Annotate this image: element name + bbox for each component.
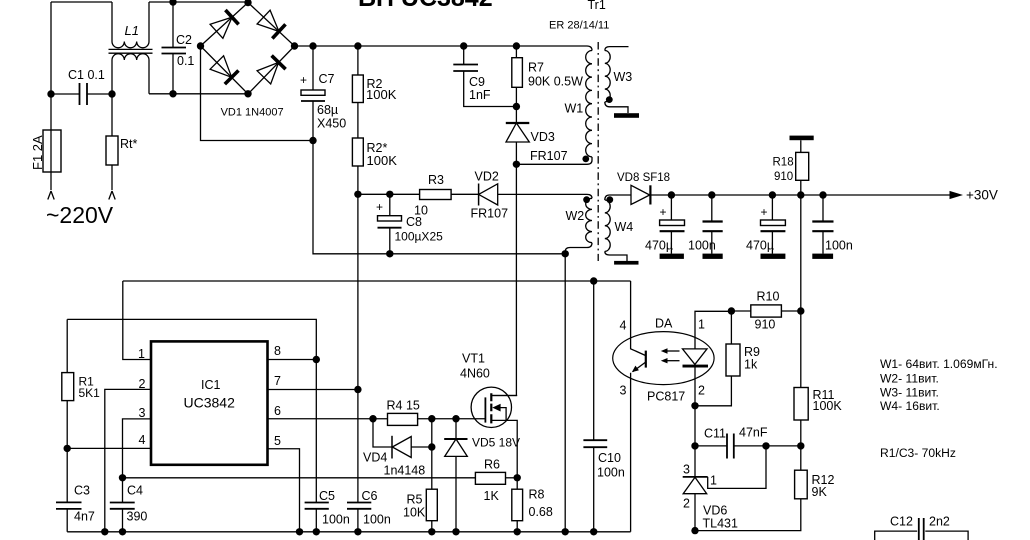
terminal chevron under Rt* bbox=[109, 191, 115, 200]
opto pin 2 riser bbox=[694, 368, 696, 446]
resistor R5 bbox=[426, 489, 437, 521]
opto LED triangle bbox=[683, 349, 708, 365]
winding W4 bbox=[605, 200, 610, 251]
resistor R9 bbox=[726, 344, 740, 376]
svg-text:7: 7 bbox=[274, 374, 281, 388]
ground W3 bbox=[614, 113, 639, 118]
svg-text:~220V: ~220V bbox=[46, 202, 114, 228]
capacitor C-out1 470u electrolytic bbox=[670, 195, 672, 254]
pin 1 wire bbox=[123, 281, 151, 360]
resistor R11 bbox=[794, 388, 808, 421]
capacitor C4 bbox=[122, 478, 124, 532]
svg-text:+: + bbox=[761, 205, 768, 219]
svg-text:C8: C8 bbox=[406, 215, 422, 229]
bridge diode lower-left bbox=[210, 56, 232, 78]
capacitor C-out3 470u electrolytic bbox=[771, 195, 773, 254]
svg-text:R3: R3 bbox=[428, 173, 444, 187]
transformer Tr1 core (dash-dot) bbox=[597, 42, 599, 261]
ground bar C-out1 bbox=[660, 254, 684, 259]
wire: drain vertical from VD3 node down to VT1 drain bbox=[491, 164, 516, 395]
resistor R1 bbox=[62, 373, 74, 401]
light arrow 1 bbox=[666, 350, 680, 352]
opto pin 3 riser to primary ground bbox=[630, 373, 632, 532]
svg-text:VD6: VD6 bbox=[703, 504, 727, 518]
phototransistor base bar bbox=[645, 351, 647, 368]
transistor VT1 circle bbox=[471, 387, 511, 427]
capacitor C9 bbox=[464, 46, 517, 107]
svg-text:X450: X450 bbox=[317, 117, 346, 131]
svg-text:VD5 18V: VD5 18V bbox=[472, 436, 520, 450]
svg-text:R7: R7 bbox=[528, 61, 544, 75]
wire: gate drive line bbox=[373, 418, 485, 420]
bridge diode upper-right bbox=[257, 10, 279, 31]
svg-text:2: 2 bbox=[139, 377, 146, 391]
capacitor C10 bbox=[593, 281, 595, 532]
wire: top mains line right segment bbox=[149, 1, 248, 3]
svg-text:W4: W4 bbox=[615, 220, 634, 234]
wire: divider vertical R10 right to R11 bbox=[800, 311, 802, 388]
arrow +30V bbox=[950, 191, 964, 199]
wire: bridge minus path down and right to C7 bottom bbox=[201, 46, 314, 141]
winding W1 bbox=[586, 51, 592, 157]
svg-text:100n: 100n bbox=[322, 513, 350, 527]
svg-text:100n: 100n bbox=[597, 466, 625, 480]
svg-text:4: 4 bbox=[620, 319, 627, 333]
pin 4 wire bbox=[67, 447, 151, 449]
wire: W4 bottom lead to ground bbox=[605, 251, 627, 261]
pin 2 wire bbox=[105, 389, 151, 531]
wire: R3 feed line bbox=[358, 193, 479, 195]
diode VD4 bbox=[373, 419, 392, 447]
wire: W3 bottom lead to ground bbox=[605, 102, 628, 113]
svg-text:C3: C3 bbox=[74, 484, 90, 498]
pin 5 wire bbox=[268, 449, 300, 532]
wire: bottom mains line to bridge bbox=[149, 93, 248, 95]
opto pin 4 riser and phototransistor collector bbox=[631, 281, 646, 356]
svg-text:1k: 1k bbox=[744, 358, 758, 372]
svg-text:910: 910 bbox=[755, 318, 776, 332]
svg-text:VD8 SF18: VD8 SF18 bbox=[617, 172, 670, 184]
resistor R3 bbox=[420, 190, 452, 200]
fuse F1 bbox=[43, 130, 61, 172]
svg-text:Rt*: Rt* bbox=[120, 137, 138, 151]
capacitor C7 electrolytic bbox=[312, 46, 314, 141]
svg-text:0.1: 0.1 bbox=[177, 54, 194, 68]
svg-text:Tr1: Tr1 bbox=[588, 0, 606, 12]
svg-text:L1: L1 bbox=[125, 23, 139, 38]
svg-text:C9: C9 bbox=[469, 75, 485, 89]
wire: W3 top stub bbox=[605, 47, 629, 51]
op-amp IC1 UC3842 box bbox=[151, 341, 268, 464]
svg-text:470µ: 470µ bbox=[746, 239, 774, 253]
svg-text:R6: R6 bbox=[484, 458, 500, 472]
wire: W2 bottom lead to primary minus bbox=[565, 243, 592, 254]
svg-text:9K: 9K bbox=[812, 485, 828, 499]
svg-text:VD4: VD4 bbox=[363, 451, 387, 465]
svg-text:100n: 100n bbox=[825, 239, 853, 253]
svg-text:C2: C2 bbox=[176, 33, 192, 47]
capacitor C6 bbox=[347, 503, 371, 509]
svg-text:R8: R8 bbox=[529, 488, 545, 502]
svg-text:C1 0.1: C1 0.1 bbox=[68, 68, 105, 82]
bridge diode upper-left bbox=[210, 17, 232, 38]
svg-text:DA: DA bbox=[655, 317, 673, 331]
polarity dot W1 bbox=[582, 156, 589, 163]
VT1 source tap bbox=[491, 420, 517, 477]
phototransistor emitter with arrow bbox=[633, 362, 646, 372]
svg-text:100K: 100K bbox=[813, 399, 843, 413]
capacitor C-out4 100n bbox=[822, 195, 824, 254]
svg-text:C6: C6 bbox=[362, 489, 378, 503]
wire: DC+ rail from bridge to transformer W1 bbox=[295, 46, 593, 51]
svg-text:10K: 10K bbox=[403, 506, 426, 520]
resistor R18 bbox=[796, 152, 809, 180]
svg-text:R10: R10 bbox=[757, 290, 780, 304]
svg-text:100K: 100K bbox=[367, 153, 398, 168]
svg-text:3: 3 bbox=[139, 406, 146, 420]
svg-text:100K: 100K bbox=[366, 87, 397, 102]
wire: top mains line left segment bbox=[51, 1, 112, 3]
svg-text:5K1: 5K1 bbox=[79, 386, 101, 400]
svg-text:1n4148: 1n4148 bbox=[384, 464, 426, 478]
svg-text:47nF: 47nF bbox=[739, 426, 768, 440]
svg-text:+: + bbox=[300, 73, 307, 87]
svg-text:W3: W3 bbox=[614, 70, 633, 84]
resistor R7 bbox=[512, 58, 523, 88]
wire: comp line pin1 to opto pin4 bbox=[123, 280, 631, 282]
svg-text:90K 0.5W: 90K 0.5W bbox=[528, 75, 583, 89]
resistor R6 bbox=[475, 472, 505, 484]
capacitor C-out2 100n bbox=[711, 195, 713, 254]
svg-text:TL431: TL431 bbox=[703, 517, 738, 531]
svg-text:6: 6 bbox=[274, 404, 281, 418]
opto pin 1 wire to R10/R9 node bbox=[695, 311, 731, 349]
thermistor Rt* bbox=[106, 136, 118, 165]
svg-text:R18: R18 bbox=[773, 157, 794, 169]
svg-text:C7: C7 bbox=[319, 72, 335, 86]
svg-text:2: 2 bbox=[698, 384, 705, 398]
VT1 channel bar bbox=[490, 393, 492, 423]
svg-text:C4: C4 bbox=[127, 484, 143, 498]
svg-text:VD3: VD3 bbox=[531, 130, 555, 144]
svg-text:W1: W1 bbox=[565, 102, 584, 116]
svg-text:100n: 100n bbox=[363, 513, 391, 527]
capacitor C3 bbox=[66, 448, 68, 531]
svg-text:R1/C3- 70kHz: R1/C3- 70kHz bbox=[880, 446, 956, 460]
pin 3 wire bbox=[123, 419, 152, 478]
wire: left vertical from top corner down to C1 junction bbox=[50, 2, 52, 94]
light arrow 2 bbox=[666, 360, 680, 362]
svg-text:W1- 64вит. 1.069мГн.: W1- 64вит. 1.069мГн. bbox=[880, 357, 998, 371]
svg-text:F1 2A: F1 2A bbox=[30, 135, 45, 170]
svg-text:W4- 16вит.: W4- 16вит. bbox=[880, 399, 940, 413]
polarity dot W2 bbox=[583, 196, 590, 203]
svg-text:5: 5 bbox=[274, 434, 281, 448]
zener VD5 bbox=[455, 419, 457, 439]
svg-text:БП UC3842: БП UC3842 bbox=[358, 0, 493, 12]
capacitor C2 bbox=[172, 2, 174, 94]
polarity dot W4 bbox=[606, 196, 613, 203]
winding W3 bbox=[605, 51, 610, 102]
svg-text:100µX25: 100µX25 bbox=[395, 230, 444, 244]
VT1 drain tap bbox=[491, 395, 517, 397]
terminal chevron under F1 bbox=[48, 191, 54, 200]
capacitor C1 bbox=[80, 83, 88, 105]
resistor R4 bbox=[388, 413, 418, 425]
wire: primary minus bus from C7 down to W2 return bbox=[313, 141, 565, 254]
svg-text:2n2: 2n2 bbox=[929, 515, 950, 529]
svg-text:4N60: 4N60 bbox=[460, 367, 490, 381]
VT1 body tap with arrow bbox=[496, 408, 506, 421]
bridge rectifier VD1 diamond bbox=[201, 3, 295, 95]
svg-text:1nF: 1nF bbox=[469, 88, 491, 102]
opto LED cathode bar bbox=[683, 365, 709, 368]
inductor L1 common-mode choke bbox=[112, 2, 149, 42]
svg-text:0.68: 0.68 bbox=[529, 505, 553, 519]
resistor R12 bbox=[795, 470, 808, 499]
svg-text:390: 390 bbox=[127, 510, 148, 524]
svg-text:PC817: PC817 bbox=[647, 390, 685, 404]
svg-text:1: 1 bbox=[138, 347, 145, 361]
polarity dot W3 bbox=[606, 96, 613, 103]
ground bar C-out3 bbox=[761, 254, 786, 259]
ground W4 bbox=[614, 261, 638, 265]
wire: Vcc riser from R2* junction down to pin 7 and C6 bbox=[357, 194, 359, 532]
pin 7 wire bbox=[268, 389, 358, 391]
svg-text:8: 8 bbox=[274, 344, 281, 358]
svg-text:C10: C10 bbox=[598, 451, 621, 465]
winding W2 bbox=[586, 198, 592, 242]
wire: W4 top lead to VD8 bbox=[605, 195, 631, 200]
diode VD8 bbox=[631, 185, 650, 204]
resistor R2* bbox=[352, 138, 363, 166]
wire: +30V output rail bbox=[650, 194, 951, 196]
svg-text:+: + bbox=[376, 200, 383, 214]
resistor R2 bbox=[352, 75, 363, 103]
capacitor C12 bbox=[875, 531, 918, 540]
diode VD2 bbox=[478, 184, 480, 206]
capacitor C8 electrolytic bbox=[389, 194, 391, 254]
wire: W2 return vertical to ground rail bbox=[564, 254, 566, 532]
svg-text:+: + bbox=[660, 205, 667, 219]
svg-text:C11: C11 bbox=[704, 427, 726, 441]
svg-text:FR107: FR107 bbox=[471, 207, 509, 221]
wire: primary ground rail bbox=[67, 531, 630, 533]
svg-text:3: 3 bbox=[683, 463, 690, 477]
svg-text:100n: 100n bbox=[688, 239, 716, 253]
svg-text:FR107: FR107 bbox=[530, 149, 568, 163]
capacitor C5 bbox=[305, 503, 329, 509]
svg-text:68µ: 68µ bbox=[317, 103, 338, 117]
svg-text:UC3842: UC3842 bbox=[184, 395, 236, 411]
svg-text:IC1: IC1 bbox=[201, 378, 221, 392]
shunt regulator VD6 TL431 bbox=[694, 446, 696, 477]
wire: +30V rail down to R10/R11 divider bbox=[800, 195, 802, 311]
ground bar C-out4 bbox=[812, 254, 833, 259]
bridge diode lower-right bbox=[257, 62, 279, 84]
svg-text:2: 2 bbox=[683, 497, 690, 511]
ground bar C-out2 bbox=[703, 254, 723, 259]
svg-text:ER 28/14/11: ER 28/14/11 bbox=[549, 20, 609, 32]
svg-text:W2: W2 bbox=[566, 209, 585, 223]
wire: TL431 ref pin 1 to divider bbox=[708, 446, 766, 489]
pin 8 wire bbox=[268, 359, 317, 361]
svg-text:C12: C12 bbox=[890, 515, 913, 529]
svg-text:R4 15: R4 15 bbox=[387, 399, 420, 413]
svg-text:4n7: 4n7 bbox=[74, 510, 95, 524]
top bar above R18 bbox=[790, 136, 814, 141]
wire: snubber node to W1 bottom bbox=[516, 157, 592, 164]
svg-text:W3- 11вит.: W3- 11вит. bbox=[880, 386, 939, 400]
VT1 gate bar bbox=[484, 397, 486, 422]
svg-text:470µ: 470µ bbox=[645, 239, 673, 253]
wire: current-sense line pin3 to R6 bbox=[123, 477, 476, 479]
svg-text:+30V: +30V bbox=[966, 188, 998, 203]
resistor R8 bbox=[512, 489, 523, 521]
pin 6 wire bbox=[268, 418, 374, 420]
svg-text:910: 910 bbox=[774, 171, 793, 183]
diode VD3 bbox=[515, 107, 517, 124]
resistor R10 bbox=[751, 305, 782, 317]
svg-text:W2- 11вит.: W2- 11вит. bbox=[880, 372, 939, 386]
svg-text:VT1: VT1 bbox=[462, 352, 485, 366]
svg-text:4: 4 bbox=[139, 433, 146, 447]
svg-text:1K: 1K bbox=[484, 489, 500, 503]
svg-text:C5: C5 bbox=[319, 489, 335, 503]
svg-text:3: 3 bbox=[620, 384, 627, 398]
optocoupler DA PC817 ellipse bbox=[613, 332, 714, 385]
svg-text:1: 1 bbox=[710, 474, 717, 488]
svg-text:1: 1 bbox=[698, 318, 705, 332]
capacitor C11 bbox=[695, 445, 801, 447]
svg-text:VD1 1N4007: VD1 1N4007 bbox=[221, 107, 284, 119]
svg-text:VD2: VD2 bbox=[475, 170, 499, 184]
wire: Vref line R1 top to riser bbox=[67, 319, 316, 502]
wire: R4/VD4 node down through R5 to rail bbox=[431, 419, 433, 532]
svg-text:R5: R5 bbox=[407, 493, 423, 507]
